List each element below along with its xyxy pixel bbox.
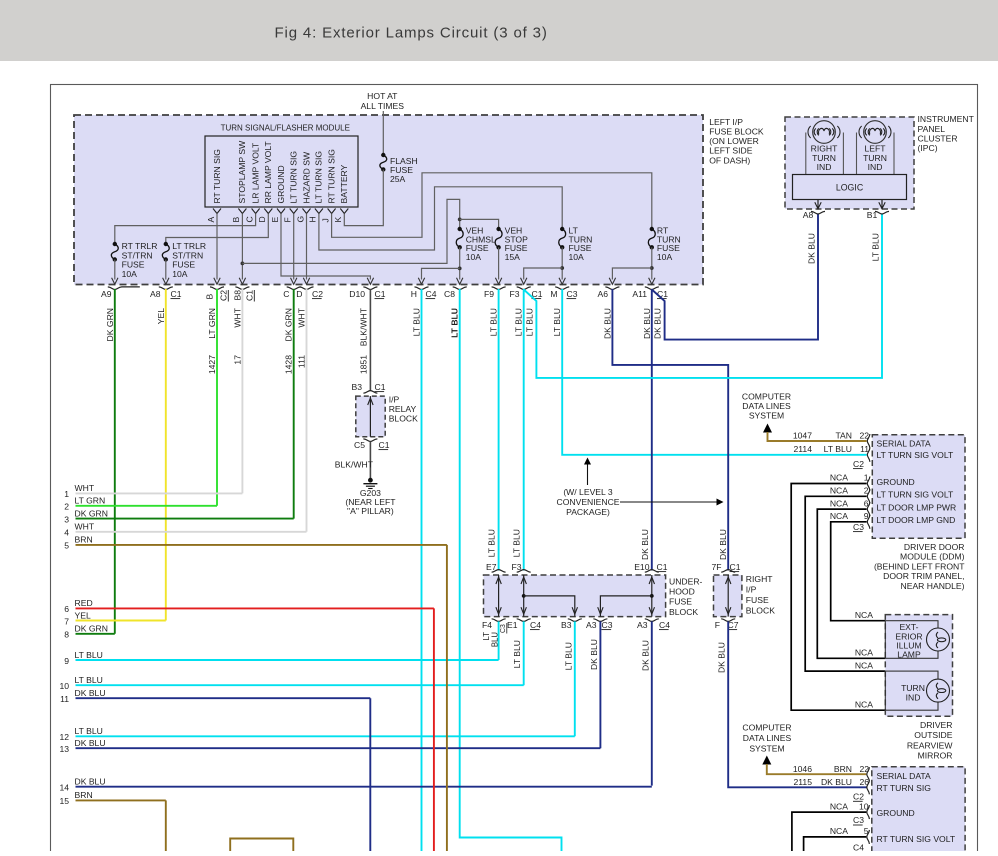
svg-text:G: G — [295, 216, 305, 223]
svg-text:NCA: NCA — [855, 648, 873, 658]
svg-text:ALL TIMES: ALL TIMES — [361, 101, 405, 111]
svg-text:LT BLU: LT BLU — [75, 650, 103, 660]
svg-text:LT BLU: LT BLU — [75, 726, 103, 736]
svg-text:A: A — [206, 217, 216, 223]
svg-text:1046: 1046 — [793, 764, 812, 774]
svg-text:C1: C1 — [657, 289, 668, 299]
svg-text:NCA: NCA — [855, 660, 873, 670]
svg-text:14: 14 — [59, 783, 69, 793]
svg-text:NCA: NCA — [830, 801, 848, 811]
svg-text:"A" PILLAR): "A" PILLAR) — [347, 506, 394, 516]
svg-text:YEL: YEL — [156, 308, 166, 324]
svg-text:I/P: I/P — [746, 584, 757, 594]
svg-text:E: E — [270, 217, 280, 223]
svg-text:DK GRN: DK GRN — [75, 624, 108, 634]
svg-text:8: 8 — [64, 630, 69, 640]
svg-text:A9: A9 — [101, 289, 112, 299]
svg-text:DK BLU: DK BLU — [652, 308, 662, 339]
svg-text:LT BLU: LT BLU — [512, 640, 522, 668]
svg-text:LT BLU: LT BLU — [871, 233, 881, 261]
svg-text:A11: A11 — [632, 289, 647, 299]
svg-text:10A: 10A — [466, 252, 482, 262]
svg-text:7: 7 — [64, 616, 69, 626]
svg-text:111: 111 — [297, 355, 307, 368]
svg-text:DK BLU: DK BLU — [640, 640, 650, 671]
svg-text:C: C — [283, 289, 289, 299]
svg-text:C1: C1 — [730, 562, 741, 572]
svg-text:BRN: BRN — [834, 764, 852, 774]
svg-text:PACKAGE): PACKAGE) — [566, 507, 610, 517]
svg-text:LT GRN: LT GRN — [75, 496, 106, 506]
svg-text:STOPLAMP SW: STOPLAMP SW — [237, 140, 247, 204]
svg-text:2114: 2114 — [794, 444, 813, 454]
svg-text:C2: C2 — [312, 289, 323, 299]
svg-text:LEFT: LEFT — [864, 143, 886, 153]
svg-text:C3: C3 — [567, 289, 578, 299]
svg-text:LR LAMP VOLT: LR LAMP VOLT — [250, 142, 260, 204]
svg-text:NEAR HANDLE): NEAR HANDLE) — [901, 581, 965, 591]
svg-text:LEFT I/P: LEFT I/P — [709, 117, 743, 127]
svg-text:LT DOOR LMP PWR: LT DOOR LMP PWR — [877, 502, 957, 512]
svg-text:C3: C3 — [500, 624, 507, 633]
svg-text:WHT: WHT — [232, 307, 242, 327]
svg-text:9: 9 — [64, 656, 69, 666]
svg-text:YEL: YEL — [75, 610, 91, 620]
svg-text:C8: C8 — [444, 289, 455, 299]
svg-text:C: C — [244, 216, 254, 222]
svg-text:BLU: BLU — [491, 632, 500, 648]
svg-text:3: 3 — [64, 514, 69, 524]
svg-text:B: B — [205, 294, 215, 300]
svg-text:1047: 1047 — [793, 431, 812, 441]
svg-text:I/P: I/P — [389, 395, 400, 405]
svg-text:(BEHIND LEFT FRONT: (BEHIND LEFT FRONT — [874, 561, 965, 571]
svg-text:LAMP: LAMP — [897, 650, 921, 660]
svg-text:INSTRUMENT: INSTRUMENT — [918, 114, 975, 124]
svg-text:UNDER-: UNDER- — [669, 576, 703, 586]
svg-text:1427: 1427 — [207, 355, 217, 374]
svg-text:FUSE BLOCK: FUSE BLOCK — [709, 127, 764, 137]
svg-text:LT BLU: LT BLU — [412, 308, 422, 336]
svg-text:F: F — [715, 620, 720, 630]
svg-text:17: 17 — [232, 355, 242, 365]
svg-text:2: 2 — [864, 486, 869, 496]
svg-text:D: D — [296, 289, 302, 299]
svg-text:Fig 4: Exterior Lamps Circuit: Fig 4: Exterior Lamps Circuit (3 of 3) — [275, 25, 548, 42]
svg-text:(IPC): (IPC) — [918, 143, 938, 153]
svg-text:(W/ LEVEL 3: (W/ LEVEL 3 — [563, 487, 613, 497]
svg-text:K: K — [333, 217, 343, 223]
svg-text:10A: 10A — [569, 252, 585, 262]
svg-text:LT TURN SIG: LT TURN SIG — [314, 151, 324, 204]
svg-text:DRIVER DOOR: DRIVER DOOR — [904, 542, 965, 552]
svg-text:DK BLU: DK BLU — [807, 233, 817, 264]
svg-text:LT BLU: LT BLU — [824, 444, 852, 454]
svg-text:DATA LINES: DATA LINES — [743, 733, 792, 743]
svg-text:REARVIEW: REARVIEW — [907, 740, 954, 750]
svg-text:RIGHT: RIGHT — [811, 143, 838, 153]
svg-text:C3: C3 — [602, 620, 613, 630]
svg-text:DRIVER: DRIVER — [920, 720, 952, 730]
svg-text:DK BLU: DK BLU — [75, 777, 106, 787]
svg-text:C1: C1 — [375, 382, 386, 392]
svg-text:7F: 7F — [711, 562, 721, 572]
svg-text:SERIAL DATA: SERIAL DATA — [877, 771, 932, 781]
svg-text:C4: C4 — [530, 620, 541, 630]
svg-text:C5: C5 — [354, 440, 365, 450]
svg-text:IND: IND — [817, 162, 832, 172]
svg-text:MODULE (DDM): MODULE (DDM) — [900, 552, 965, 562]
svg-text:SERIAL DATA: SERIAL DATA — [877, 439, 932, 449]
svg-text:C7: C7 — [728, 620, 739, 630]
svg-text:WHT: WHT — [297, 307, 307, 327]
svg-text:BRN: BRN — [75, 535, 93, 545]
svg-text:LT BLU: LT BLU — [489, 308, 499, 336]
svg-text:MIRROR: MIRROR — [918, 750, 953, 760]
svg-text:A8: A8 — [150, 289, 161, 299]
svg-text:BRN: BRN — [75, 790, 93, 800]
svg-text:TAN: TAN — [835, 431, 852, 441]
svg-text:NCA: NCA — [855, 699, 873, 709]
svg-text:F9: F9 — [484, 289, 494, 299]
svg-text:DK GRN: DK GRN — [105, 308, 115, 341]
svg-text:CONVENIENCE: CONVENIENCE — [556, 497, 619, 507]
svg-text:LT BLU: LT BLU — [512, 529, 522, 557]
svg-text:LT TURN SIG VOLT: LT TURN SIG VOLT — [877, 490, 954, 500]
svg-text:F3: F3 — [511, 562, 521, 572]
svg-text:HOOD: HOOD — [669, 587, 695, 597]
svg-text:C2: C2 — [853, 792, 864, 802]
svg-text:SYSTEM: SYSTEM — [749, 744, 784, 754]
svg-text:B8: B8 — [233, 290, 243, 301]
svg-text:PANEL: PANEL — [918, 124, 946, 134]
svg-text:F3: F3 — [509, 289, 519, 299]
svg-text:DK BLU: DK BLU — [718, 529, 728, 560]
svg-text:BLK/WHT: BLK/WHT — [335, 460, 374, 470]
svg-text:WHT: WHT — [75, 483, 95, 493]
svg-text:C3: C3 — [853, 815, 864, 825]
svg-text:10A: 10A — [122, 269, 138, 279]
svg-text:DK BLU: DK BLU — [75, 688, 106, 698]
svg-text:COMPUTER: COMPUTER — [742, 723, 791, 733]
svg-text:LT BLU: LT BLU — [552, 308, 562, 336]
svg-text:RIGHT: RIGHT — [746, 574, 773, 584]
svg-text:2: 2 — [64, 502, 69, 512]
svg-text:C4: C4 — [426, 289, 437, 299]
svg-text:A3: A3 — [637, 620, 648, 630]
svg-text:DK GRN: DK GRN — [75, 508, 108, 518]
svg-text:H: H — [308, 216, 318, 222]
svg-text:LT BLU: LT BLU — [487, 529, 497, 557]
svg-text:C3: C3 — [853, 522, 864, 532]
svg-text:F: F — [283, 217, 293, 222]
svg-text:NCA: NCA — [830, 473, 848, 483]
svg-text:C4: C4 — [853, 843, 864, 852]
svg-text:5: 5 — [864, 826, 869, 836]
svg-text:10A: 10A — [172, 269, 188, 279]
svg-text:WHT: WHT — [75, 522, 95, 532]
svg-text:RED: RED — [75, 598, 93, 608]
svg-text:DK BLU: DK BLU — [642, 308, 652, 339]
svg-text:CLUSTER: CLUSTER — [918, 133, 958, 143]
svg-text:OUTSIDE: OUTSIDE — [914, 730, 952, 740]
svg-text:LT BLU: LT BLU — [514, 308, 524, 336]
svg-text:6: 6 — [864, 498, 869, 508]
svg-text:RT TURN SIG: RT TURN SIG — [212, 149, 222, 204]
svg-text:1: 1 — [864, 473, 869, 483]
svg-text:IND: IND — [868, 162, 883, 172]
svg-text:M: M — [550, 289, 557, 299]
svg-text:25A: 25A — [390, 174, 406, 184]
svg-text:HOT AT: HOT AT — [367, 91, 398, 101]
svg-text:DOOR TRIM PANEL,: DOOR TRIM PANEL, — [883, 571, 964, 581]
svg-text:C2: C2 — [853, 459, 864, 469]
svg-text:C1: C1 — [657, 562, 668, 572]
svg-text:E7: E7 — [486, 562, 497, 572]
svg-text:A3: A3 — [586, 620, 597, 630]
svg-text:COMPUTER: COMPUTER — [742, 392, 791, 402]
svg-text:BLOCK: BLOCK — [746, 605, 775, 615]
svg-text:RT TURN SIG: RT TURN SIG — [326, 149, 336, 204]
svg-text:6: 6 — [64, 604, 69, 614]
svg-text:LEFT SIDE: LEFT SIDE — [709, 146, 753, 156]
svg-text:LT BLU: LT BLU — [563, 642, 573, 670]
svg-text:D: D — [257, 216, 267, 222]
svg-text:DK BLU: DK BLU — [75, 738, 106, 748]
svg-text:FUSE: FUSE — [669, 597, 692, 607]
svg-text:IND: IND — [906, 692, 921, 702]
svg-text:DK BLU: DK BLU — [602, 308, 612, 339]
svg-text:BLOCK: BLOCK — [669, 607, 698, 617]
svg-text:DK BLU: DK BLU — [640, 529, 650, 560]
svg-text:10A: 10A — [657, 252, 673, 262]
svg-text:4: 4 — [64, 528, 69, 538]
svg-text:10: 10 — [59, 681, 69, 691]
svg-text:C1: C1 — [375, 289, 386, 299]
svg-text:GROUND: GROUND — [877, 477, 915, 487]
svg-text:LT GRN: LT GRN — [207, 308, 217, 339]
svg-text:FUSE: FUSE — [746, 595, 769, 605]
svg-text:15A: 15A — [505, 252, 521, 262]
svg-text:C2: C2 — [219, 290, 229, 301]
svg-text:1428: 1428 — [284, 355, 294, 374]
svg-text:J: J — [320, 218, 330, 222]
svg-text:DK GRN: DK GRN — [284, 308, 294, 341]
svg-text:DK BLU: DK BLU — [717, 642, 727, 673]
svg-text:HAZARD SW: HAZARD SW — [301, 151, 311, 203]
svg-text:H: H — [411, 289, 417, 299]
svg-text:1851: 1851 — [358, 355, 368, 374]
svg-text:RT TURN SIG: RT TURN SIG — [877, 783, 932, 793]
svg-text:(ON LOWER: (ON LOWER — [709, 136, 759, 146]
svg-text:LOGIC: LOGIC — [836, 182, 864, 192]
svg-text:LT TURN SIG: LT TURN SIG — [289, 151, 299, 204]
svg-text:DK BLU: DK BLU — [821, 777, 852, 787]
svg-text:B1: B1 — [867, 210, 878, 220]
svg-text:OF DASH): OF DASH) — [709, 155, 750, 165]
svg-text:LT BLU: LT BLU — [450, 308, 460, 338]
svg-text:NCA: NCA — [855, 610, 873, 620]
svg-text:BATTERY: BATTERY — [339, 164, 349, 203]
svg-text:RT TURN SIG VOLT: RT TURN SIG VOLT — [877, 834, 956, 844]
svg-text:LT BLU: LT BLU — [75, 675, 103, 685]
svg-text:RELAY: RELAY — [389, 404, 417, 414]
svg-text:1: 1 — [64, 489, 69, 499]
svg-text:LT TURN SIG VOLT: LT TURN SIG VOLT — [877, 450, 954, 460]
svg-text:LT DOOR LMP GND: LT DOOR LMP GND — [877, 515, 956, 525]
svg-text:C1: C1 — [171, 289, 182, 299]
svg-text:GROUND: GROUND — [276, 165, 286, 203]
svg-text:D10: D10 — [349, 289, 365, 299]
svg-text:C1: C1 — [379, 440, 390, 450]
svg-text:11: 11 — [60, 694, 69, 704]
svg-text:A6: A6 — [597, 289, 608, 299]
svg-text:DATA LINES: DATA LINES — [742, 401, 791, 411]
svg-text:13: 13 — [59, 744, 69, 754]
svg-text:RR LAMP VOLT: RR LAMP VOLT — [263, 141, 273, 204]
svg-text:15: 15 — [59, 796, 69, 806]
svg-text:LT BLU: LT BLU — [525, 308, 535, 336]
svg-text:DK BLU: DK BLU — [589, 639, 599, 670]
svg-text:B3: B3 — [351, 382, 362, 392]
svg-text:F4: F4 — [482, 620, 492, 630]
svg-text:9: 9 — [864, 511, 869, 521]
svg-text:10: 10 — [859, 801, 869, 811]
svg-text:A8: A8 — [803, 210, 814, 220]
svg-text:GROUND: GROUND — [877, 808, 915, 818]
svg-text:C4: C4 — [659, 620, 670, 630]
svg-text:NCA: NCA — [830, 511, 848, 521]
svg-text:NCA: NCA — [830, 486, 848, 496]
svg-text:B: B — [231, 217, 241, 223]
svg-text:B3: B3 — [561, 620, 572, 630]
svg-text:C1: C1 — [245, 290, 255, 301]
svg-text:BLK/WHT: BLK/WHT — [358, 307, 368, 346]
svg-text:BLOCK: BLOCK — [389, 414, 418, 424]
svg-text:TURN SIGNAL/FLASHER MODULE: TURN SIGNAL/FLASHER MODULE — [221, 123, 350, 132]
svg-text:5: 5 — [64, 541, 69, 551]
svg-text:E1: E1 — [507, 620, 518, 630]
svg-text:SYSTEM: SYSTEM — [749, 411, 784, 421]
svg-text:NCA: NCA — [830, 498, 848, 508]
svg-text:12: 12 — [59, 732, 69, 742]
svg-text:2115: 2115 — [794, 777, 813, 787]
svg-text:NCA: NCA — [830, 826, 848, 836]
svg-text:E10: E10 — [634, 562, 650, 572]
